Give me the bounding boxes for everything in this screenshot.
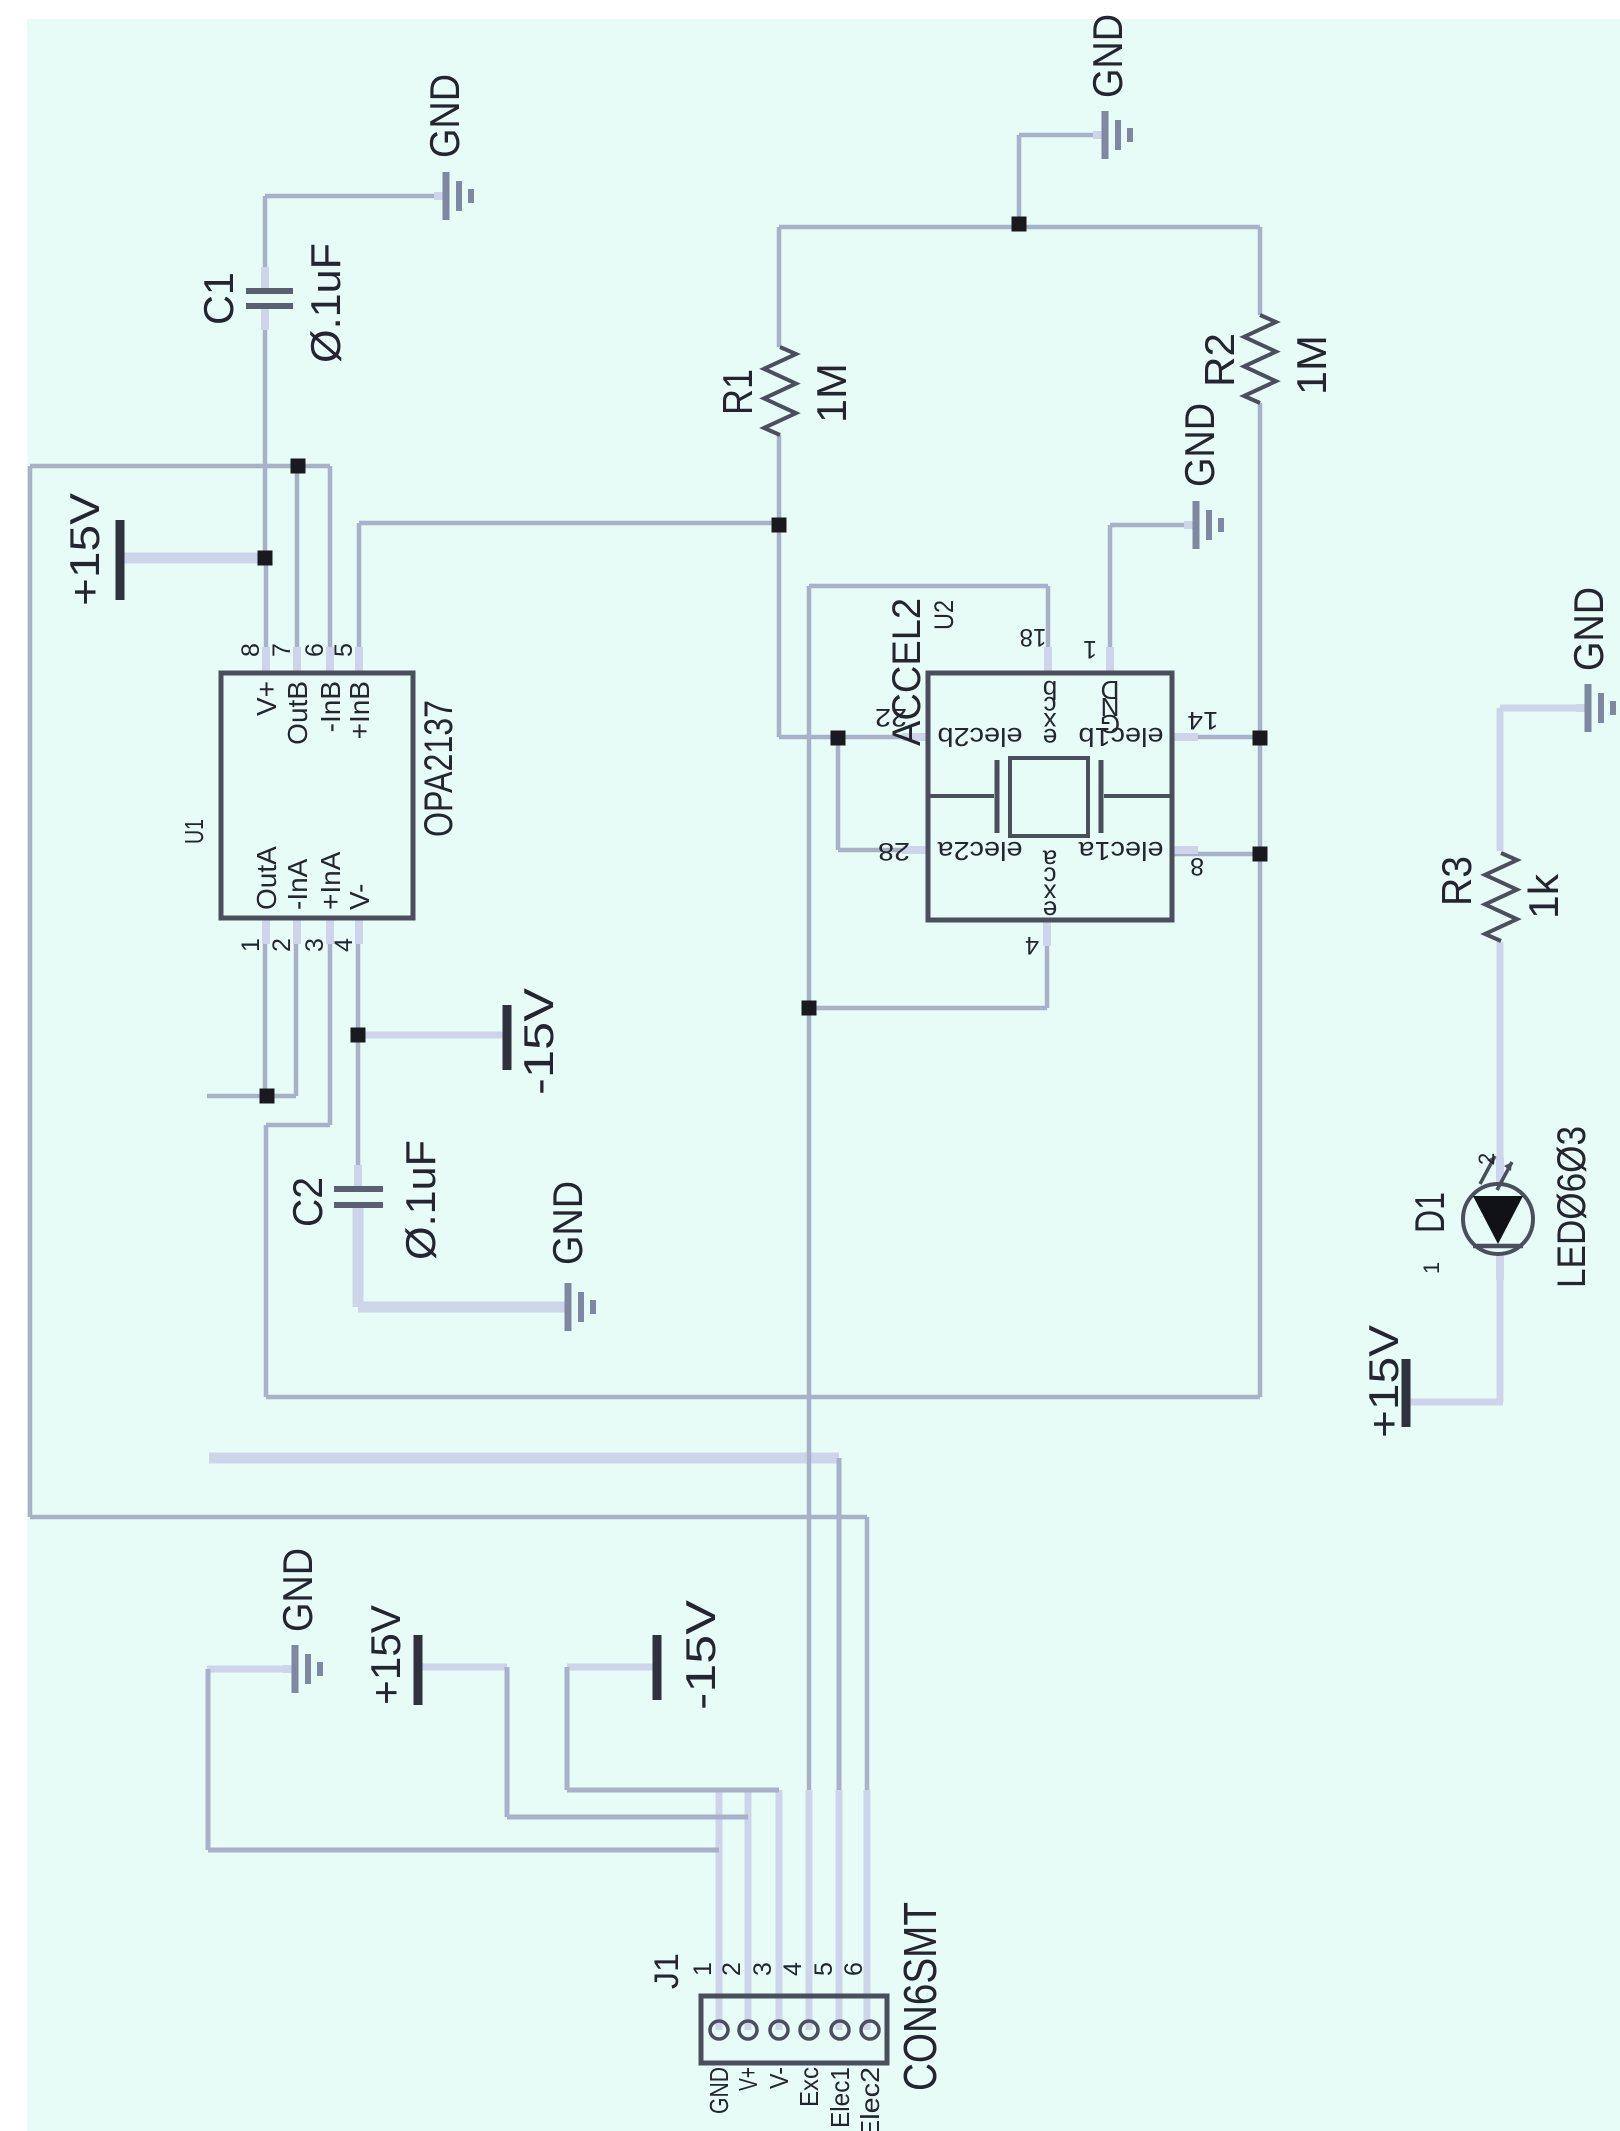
svg-text:V-: V- <box>764 2067 794 2089</box>
svg-text:C1: C1 <box>195 272 242 325</box>
svg-text:1: 1 <box>1083 635 1097 663</box>
svg-text:+InA: +InA <box>315 851 346 910</box>
svg-text:-15V: -15V <box>515 988 562 1095</box>
svg-text:+15V: +15V <box>61 493 108 606</box>
svg-text:LEDØ6Ø3: LEDØ6Ø3 <box>1550 1126 1594 1288</box>
svg-text:6: 6 <box>840 1962 868 1976</box>
svg-text:elec2a: elec2a <box>937 836 1023 866</box>
svg-text:Elec2: Elec2 <box>855 2067 885 2131</box>
svg-text:8: 8 <box>1190 852 1204 880</box>
svg-text:7: 7 <box>268 643 296 657</box>
svg-text:-InA: -InA <box>282 858 313 910</box>
svg-text:Ø.1uF: Ø.1uF <box>302 243 349 363</box>
svg-text:4: 4 <box>330 938 358 952</box>
svg-text:-15V: -15V <box>677 1600 724 1710</box>
svg-text:8: 8 <box>237 643 265 657</box>
svg-text:D: D <box>1101 675 1120 705</box>
svg-text:Ø.1uF: Ø.1uF <box>397 1140 444 1260</box>
svg-text:GND: GND <box>1176 403 1223 487</box>
svg-text:2: 2 <box>1474 1153 1499 1165</box>
svg-text:OutA: OutA <box>251 846 282 910</box>
svg-text:5: 5 <box>810 1962 838 1976</box>
svg-text:GND: GND <box>544 1181 591 1265</box>
svg-text:V-: V- <box>344 884 375 910</box>
svg-text:Elec1: Elec1 <box>825 2067 855 2128</box>
svg-text:C2: C2 <box>284 1177 331 1227</box>
svg-text:GND: GND <box>421 74 468 158</box>
svg-text:+15V: +15V <box>1360 1325 1407 1438</box>
svg-text:b: b <box>1043 675 1057 705</box>
svg-text:elec1a: elec1a <box>1078 836 1164 866</box>
svg-text:4: 4 <box>779 1962 807 1976</box>
svg-text:U1: U1 <box>179 819 209 844</box>
svg-text:18: 18 <box>1020 623 1047 651</box>
svg-text:V+: V+ <box>733 2067 763 2091</box>
svg-text:V+: V+ <box>251 681 282 716</box>
svg-text:OPA2137: OPA2137 <box>417 700 461 837</box>
svg-text:1: 1 <box>237 938 265 952</box>
svg-text:+15V: +15V <box>362 1605 409 1705</box>
svg-text:5: 5 <box>330 643 358 657</box>
svg-text:elec2b: elec2b <box>938 722 1023 752</box>
svg-text:1M: 1M <box>1288 335 1335 395</box>
svg-text:6: 6 <box>301 643 329 657</box>
svg-text:4: 4 <box>1025 931 1039 959</box>
svg-text:1: 1 <box>689 1962 717 1976</box>
svg-text:1k: 1k <box>1520 873 1567 919</box>
svg-text:2: 2 <box>718 1962 746 1976</box>
svg-text:14: 14 <box>1187 706 1218 734</box>
svg-text:22: 22 <box>875 703 907 731</box>
svg-text:3: 3 <box>301 938 329 952</box>
svg-text:J1: J1 <box>648 1953 686 1989</box>
svg-text:GND: GND <box>1084 14 1131 98</box>
svg-text:GND: GND <box>1565 587 1612 671</box>
svg-text:+InB: +InB <box>344 681 375 739</box>
svg-text:U2: U2 <box>929 600 959 630</box>
svg-text:OutB: OutB <box>282 681 313 745</box>
svg-text:D1: D1 <box>1406 1192 1453 1233</box>
svg-text:-InB: -InB <box>315 681 346 732</box>
svg-text:3: 3 <box>749 1962 777 1976</box>
svg-text:1: 1 <box>1419 1262 1444 1274</box>
svg-text:R2: R2 <box>1196 333 1243 387</box>
svg-text:CON6SMT: CON6SMT <box>894 1902 946 2091</box>
svg-text:a: a <box>1042 845 1057 875</box>
svg-text:1M: 1M <box>808 363 855 423</box>
svg-text:R3: R3 <box>1433 856 1480 906</box>
svg-text:2: 2 <box>268 938 296 952</box>
svg-text:GND: GND <box>704 2067 734 2114</box>
svg-text:Exc: Exc <box>794 2067 824 2107</box>
svg-text:28: 28 <box>878 837 910 865</box>
svg-text:GND: GND <box>274 1548 321 1632</box>
svg-text:R1: R1 <box>714 369 761 415</box>
